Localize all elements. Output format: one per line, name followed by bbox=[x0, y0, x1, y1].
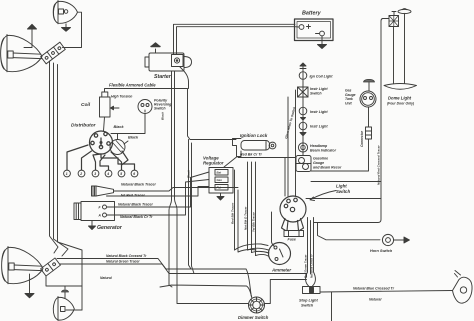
light switch LS bbox=[280, 196, 306, 231]
wire instrument branch left bbox=[295, 90, 297, 197]
ground atop cowl lamp bbox=[62, 287, 69, 299]
svg-text:Switch: Switch bbox=[154, 107, 166, 111]
svg-text:4: 4 bbox=[106, 172, 109, 176]
svg-text:Natural Red Crossed Tracer: Natural Red Crossed Tracer bbox=[377, 145, 381, 185]
svg-text:Unit: Unit bbox=[345, 101, 352, 105]
ignition lock bbox=[224, 139, 276, 168]
ammeter bbox=[269, 243, 291, 265]
svg-text:Headlamp: Headlamp bbox=[310, 144, 328, 148]
ign coil light bbox=[299, 72, 307, 80]
connector on tank wire bbox=[366, 127, 372, 139]
svg-text:Gasoline: Gasoline bbox=[313, 157, 328, 161]
svg-text:Natural Green Tracer: Natural Green Tracer bbox=[106, 260, 140, 264]
terminal 3 bbox=[92, 170, 99, 177]
svg-text:Connector: Connector bbox=[360, 130, 364, 147]
wire instrument column bbox=[302, 71, 304, 156]
svg-text:Natural: Natural bbox=[369, 298, 382, 302]
svg-text:Switch: Switch bbox=[336, 189, 350, 194]
svg-text:Natural Black Tracer: Natural Black Tracer bbox=[118, 203, 153, 207]
svg-text:Flexible Armored Cable: Flexible Armored Cable bbox=[109, 83, 156, 88]
condenser on distributor bbox=[110, 134, 128, 155]
wire starter to battery (double cable) bbox=[174, 24, 296, 54]
svg-text:Horn Switch: Horn Switch bbox=[370, 249, 393, 253]
wire dome feed vertical bbox=[378, 19, 389, 223]
terminal 4 bbox=[105, 170, 112, 177]
svg-text:Stop Light: Stop Light bbox=[299, 299, 319, 303]
svg-text:1: 1 bbox=[66, 172, 68, 176]
svg-text:6: 6 bbox=[133, 172, 135, 176]
wire bundle from connector A down bbox=[50, 61, 59, 253]
svg-text:Fuse: Fuse bbox=[288, 238, 296, 242]
wire regulator down bundle bbox=[234, 170, 236, 250]
svg-text:Dimmer Switch: Dimmer Switch bbox=[238, 315, 269, 320]
ground under right headlamp bbox=[62, 24, 71, 32]
starter pedal arrow bbox=[151, 43, 160, 53]
svg-text:(Four Door Only): (Four Door Only) bbox=[387, 102, 415, 106]
connector block A (3-gang) bbox=[41, 42, 66, 64]
generator ground arrow bbox=[89, 221, 96, 230]
svg-text:Starter: Starter bbox=[154, 74, 172, 80]
instr light 2 bbox=[299, 122, 307, 136]
svg-text:Natural: Natural bbox=[100, 276, 112, 280]
wire regulator third terminal bbox=[107, 187, 210, 197]
fuse bbox=[284, 231, 304, 237]
svg-text:Natural Black Tracer: Natural Black Tracer bbox=[121, 183, 156, 187]
cowl lamp (small, bottom) bbox=[53, 297, 74, 321]
wire harness verticals center bbox=[169, 71, 172, 287]
instr light 1 bbox=[299, 107, 307, 120]
svg-text:Ignition Lock: Ignition Lock bbox=[240, 133, 268, 138]
svg-text:Nat Blue Cross Tr: Nat Blue Cross Tr bbox=[310, 254, 314, 278]
wire flexible armored cable (coil to ignition lock) bbox=[105, 89, 237, 140]
svg-text:Black: Black bbox=[128, 136, 139, 140]
svg-text:Generator: Generator bbox=[97, 225, 123, 231]
svg-text:Red Green Tracer: Red Green Tracer bbox=[304, 254, 308, 278]
svg-text:Nat Blk D Tracer: Nat Blk D Tracer bbox=[244, 206, 248, 230]
svg-text:Red Blk Tracer: Red Blk Tracer bbox=[231, 202, 235, 224]
svg-text:and Beam Recor: and Beam Recor bbox=[313, 166, 342, 170]
svg-text:Ign Coil Light: Ign Coil Light bbox=[309, 75, 333, 79]
svg-text:Gen: Gen bbox=[217, 178, 223, 182]
terminal 5 bbox=[118, 170, 125, 177]
generator bbox=[74, 202, 115, 221]
svg-text:Black: Black bbox=[161, 112, 165, 120]
terminal 2 bbox=[78, 170, 85, 177]
terminal 6 bbox=[131, 170, 138, 177]
svg-text:Coil: Coil bbox=[81, 102, 91, 108]
headlamp right (upper) bbox=[53, 1, 77, 24]
wire light switch right runs bbox=[306, 198, 381, 200]
svg-text:3: 3 bbox=[94, 172, 96, 176]
connector block B (2-gang) on lower lamp bbox=[41, 258, 61, 276]
battery bbox=[295, 19, 334, 41]
wire cowl lamp feed loop bbox=[46, 276, 82, 286]
svg-text:High Tension: High Tension bbox=[111, 95, 132, 99]
wire stop switch to tail lamp bbox=[320, 291, 453, 293]
svg-text:Switch: Switch bbox=[301, 304, 314, 308]
wire headlamp right to connector bbox=[63, 12, 82, 47]
svg-text:Battery: Battery bbox=[302, 11, 322, 17]
wire lock to switch vertical bbox=[284, 158, 286, 197]
svg-text:Instr Light: Instr Light bbox=[310, 110, 328, 114]
wire starter switch down bbox=[180, 67, 189, 89]
svg-text:Black: Black bbox=[114, 125, 125, 129]
wire ignition lock accessory bbox=[238, 157, 296, 159]
coil C bbox=[100, 92, 111, 117]
dome light stems bbox=[393, 27, 395, 84]
wire fuse down to stop switch bundle bbox=[306, 218, 309, 287]
headlamp beam indicator bbox=[298, 143, 307, 152]
svg-text:Natural Black Cr Tr: Natural Black Cr Tr bbox=[120, 215, 153, 219]
wire generator A to regulator bbox=[107, 180, 210, 216]
starter bbox=[145, 53, 192, 71]
wire horn to harness bbox=[114, 188, 239, 192]
gas gauge tank unit bbox=[360, 79, 376, 107]
svg-text:Fld: Fld bbox=[217, 186, 221, 190]
svg-text:2: 2 bbox=[79, 172, 82, 176]
wire feeds to ammeter bbox=[235, 244, 269, 250]
horn bbox=[92, 186, 114, 196]
wire polarity switch to distributor bbox=[111, 114, 145, 134]
ground under lower left headlamp bbox=[25, 274, 34, 298]
wire generator F to regulator bbox=[107, 172, 210, 207]
svg-text:Natural Blue Crossed Tr: Natural Blue Crossed Tr bbox=[353, 287, 395, 291]
gasoline gauge and beam recorder bbox=[296, 156, 311, 172]
terminal 1 bbox=[64, 170, 71, 177]
wire coil to distributor primary bbox=[104, 117, 105, 131]
svg-text:Red Bk Cr Tr: Red Bk Cr Tr bbox=[240, 153, 263, 157]
headlamp left lower bbox=[2, 247, 43, 284]
wire tank to gauge bbox=[311, 139, 369, 171]
wire bottom harness to dimmer bbox=[160, 285, 252, 298]
spark plug wires to terminals bbox=[67, 145, 135, 170]
svg-text:Switch: Switch bbox=[310, 91, 322, 95]
svg-text:Ammeter: Ammeter bbox=[271, 268, 291, 273]
svg-text:Instr Light: Instr Light bbox=[310, 125, 328, 129]
svg-text:Dome Light: Dome Light bbox=[388, 96, 412, 101]
wire lower lamp harness right bbox=[57, 259, 246, 270]
svg-text:Beam Indicator: Beam Indicator bbox=[310, 149, 337, 153]
svg-text:5: 5 bbox=[120, 172, 122, 176]
svg-text:Light: Light bbox=[336, 184, 347, 189]
svg-text:Distributor: Distributor bbox=[71, 123, 97, 129]
svg-text:Gauge: Gauge bbox=[313, 161, 324, 165]
horn switch bbox=[382, 234, 409, 245]
dome light switch bbox=[389, 12, 399, 27]
wire dimmer to stop area bbox=[264, 280, 307, 304]
svg-text:Regulator: Regulator bbox=[203, 161, 224, 166]
dimmer switch bbox=[249, 297, 265, 313]
instrument feed arrow top bbox=[300, 63, 306, 71]
voltage regulator bbox=[209, 168, 233, 194]
parking mast above left headlamp bbox=[24, 24, 37, 47]
ground below battery bbox=[318, 36, 327, 49]
light switch label arrow bbox=[311, 191, 337, 200]
svg-text:Black: Black bbox=[187, 170, 191, 178]
dome lamp button top bbox=[398, 9, 411, 14]
wire tank unit down bbox=[368, 107, 370, 127]
svg-text:Jet Red Tracer: Jet Red Tracer bbox=[120, 194, 146, 198]
svg-text:Yel Blk Tracer: Yel Blk Tracer bbox=[252, 211, 256, 232]
stop light switch bbox=[303, 287, 321, 294]
regulator ground arrow bbox=[217, 193, 224, 200]
distributor bbox=[90, 131, 113, 154]
high tension arrow at coil bbox=[111, 106, 120, 110]
tail lamp bbox=[453, 271, 473, 304]
dome light lens bbox=[384, 84, 417, 90]
headlamp left (main) bbox=[1, 35, 42, 72]
svg-text:Natural Black Crossed Tr: Natural Black Crossed Tr bbox=[106, 254, 147, 258]
instr light switch bbox=[298, 87, 309, 97]
polarity reversing switch bbox=[138, 100, 152, 114]
